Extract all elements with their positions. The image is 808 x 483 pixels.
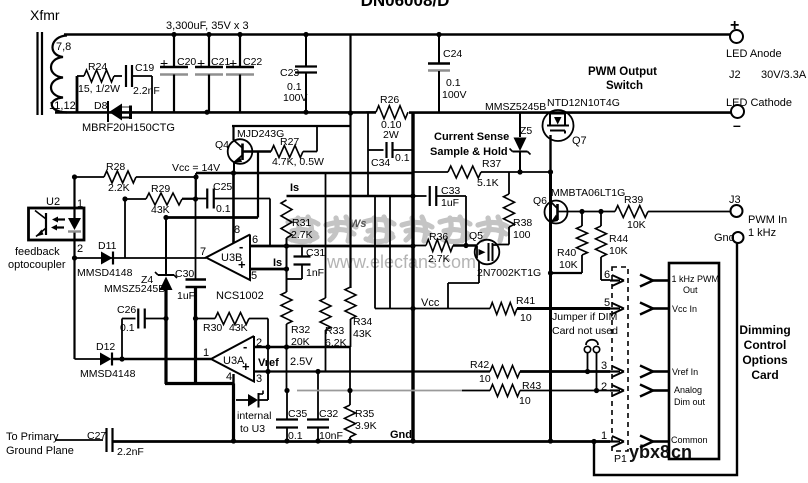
card chevron VrefIn (640, 366, 669, 378)
capacitor C26 (117, 304, 145, 334)
transformer Xfmr label (30, 7, 60, 23)
wire snubber left leg (76, 76, 79, 112)
svg-text:Xfmr: Xfmr (30, 7, 60, 23)
wire R39 to J3 (648, 211, 730, 213)
capacitor C27 (87, 428, 144, 458)
resistor R44 (596, 212, 629, 258)
capacitor C21 (195, 34, 230, 112)
svg-text:Q5: Q5 (469, 230, 483, 242)
svg-text:2: 2 (77, 243, 83, 255)
svg-text:D11: D11 (98, 240, 117, 252)
card chevron Analog (640, 385, 669, 397)
svg-text:feedback: feedback (15, 246, 60, 258)
svg-text:C33: C33 (441, 185, 460, 197)
svg-text:2.7K: 2.7K (428, 253, 450, 265)
transformer core and winding (38, 32, 68, 115)
svg-text:0.1: 0.1 (216, 203, 231, 215)
capacitor C33 (413, 185, 466, 209)
wire Q4 emitter (233, 162, 235, 173)
wire gnd rail (113, 429, 595, 442)
P1 pin 1 (601, 430, 624, 447)
svg-text:Gnd: Gnd (390, 429, 412, 441)
svg-text:1 kHz: 1 kHz (748, 227, 776, 239)
svg-text:3: 3 (601, 360, 607, 372)
transformer pin label 7,8 (56, 41, 71, 53)
resistor R32 (281, 292, 310, 348)
svg-text:R36: R36 (429, 231, 448, 243)
card pin label 1kHz PWM Out (672, 274, 720, 295)
svg-text:PWM In: PWM In (748, 214, 787, 226)
wire U3A pin2 line (254, 346, 350, 348)
svg-text:+: + (238, 257, 246, 272)
svg-text:1nF: 1nF (306, 267, 324, 279)
svg-text:1uF: 1uF (177, 290, 195, 302)
svg-text:+: + (242, 359, 250, 374)
capacitor C30 (175, 177, 206, 302)
dimming card box (669, 263, 719, 459)
wire gnd border (594, 243, 737, 475)
svg-text:Ground Plane: Ground Plane (6, 445, 74, 457)
svg-text:1: 1 (203, 347, 209, 359)
svg-text:Vref In: Vref In (672, 367, 698, 377)
diode D11 (98, 240, 117, 265)
wire R40 bottom (551, 255, 583, 273)
wire y217 thick (166, 216, 258, 219)
svg-text:Q7: Q7 (572, 135, 587, 147)
svg-text:0.1: 0.1 (446, 77, 461, 89)
transistor Q5 (469, 230, 541, 279)
svg-text:Is: Is (290, 182, 299, 194)
wire Vcc rail (196, 172, 413, 175)
svg-text:R33: R33 (325, 325, 344, 337)
wire R38 bottom (497, 227, 509, 245)
svg-text:R34: R34 (353, 316, 372, 328)
capacitor C35 (276, 391, 307, 443)
label Dimming Control Options Card (739, 323, 790, 382)
svg-text:C26: C26 (117, 304, 136, 316)
svg-text:D8: D8 (94, 100, 108, 112)
resistor R27 (271, 136, 324, 168)
svg-text:Common: Common (671, 435, 708, 445)
svg-text:LED Anode: LED Anode (726, 48, 782, 60)
svg-text:C34: C34 (371, 157, 390, 169)
capacitor C32 (307, 372, 343, 443)
svg-text:Control: Control (744, 338, 787, 352)
P1 pin 5 (604, 297, 624, 314)
wire C25 right drop to pin6 (269, 199, 271, 247)
svg-text:MBRF20H150CTG: MBRF20H150CTG (82, 122, 175, 134)
svg-text:R39: R39 (624, 194, 643, 206)
svg-text:10K: 10K (559, 259, 578, 271)
svg-text:R28: R28 (106, 161, 125, 173)
svg-text:To Primary: To Primary (6, 431, 59, 443)
svg-text:2.7K: 2.7K (291, 229, 313, 241)
svg-text:-: - (243, 339, 247, 354)
svg-text:10: 10 (520, 312, 532, 324)
svg-text:Dim out: Dim out (674, 397, 706, 407)
watermark chinese brush characters (288, 217, 508, 242)
svg-text:100: 100 (513, 229, 531, 241)
svg-text:15, 1/2W: 15, 1/2W (78, 83, 120, 95)
wire R28 line (75, 176, 105, 178)
svg-text:MMSZ5245B: MMSZ5245B (485, 101, 546, 113)
card chevron 1kHz (640, 275, 669, 287)
wire U2 pin1 (75, 177, 84, 210)
card chevron VccIn (640, 303, 669, 315)
wire R27 right lead (303, 126, 317, 152)
svg-text:C22: C22 (243, 56, 262, 68)
resistor R37 (448, 158, 501, 189)
svg-text:R35: R35 (355, 408, 374, 420)
svg-text:3,300uF, 35V x 3: 3,300uF, 35V x 3 (166, 20, 249, 32)
svg-text:MJD243G: MJD243G (237, 128, 284, 140)
svg-text:100V: 100V (283, 92, 308, 104)
svg-text:C35: C35 (288, 408, 307, 420)
svg-text:5: 5 (604, 297, 610, 309)
wire rail right of R26 to LED cathode (409, 111, 731, 114)
resistor R38 (504, 172, 533, 241)
wire R30 right drop (249, 319, 268, 401)
wire R28 right (136, 173, 196, 199)
svg-text:to U3: to U3 (240, 423, 265, 435)
card pin label Common (671, 435, 708, 445)
label Ws (350, 218, 367, 230)
svg-text:P1: P1 (614, 453, 627, 465)
svg-text:2N7002KT1G: 2N7002KT1G (477, 267, 541, 279)
wire R29 left drop to D11 line (124, 199, 126, 258)
wire R33 top lead (325, 173, 327, 298)
resistor R35 (345, 391, 377, 442)
svg-text:U2: U2 (46, 196, 60, 208)
svg-text:1 kHz PWM: 1 kHz PWM (672, 274, 720, 284)
wire R34 bottom (350, 319, 352, 347)
svg-text:Vcc: Vcc (421, 297, 440, 309)
svg-text:7: 7 (200, 246, 206, 258)
wire U2 pin2 (75, 240, 84, 258)
P1 pin 2 (601, 381, 624, 396)
resistor R40 (557, 212, 588, 272)
svg-text:optocoupler: optocoupler (8, 259, 66, 271)
svg-text:C24: C24 (443, 48, 462, 60)
svg-text:2.5V: 2.5V (290, 356, 313, 368)
wire Q6 base line (559, 211, 616, 213)
capacitor C23 (280, 34, 317, 112)
svg-text:2.2nF: 2.2nF (133, 85, 160, 97)
label NTD12N10T4G (547, 97, 620, 109)
svg-text:NTD12N10T4G: NTD12N10T4G (547, 97, 620, 109)
wire Vcc to pin8 (232, 173, 235, 243)
label feedback optocoupler (8, 246, 66, 271)
svg-text:ybx8: ybx8 (629, 442, 670, 462)
svg-text:0.1: 0.1 (395, 152, 410, 164)
wire R24 to C19 (114, 75, 122, 77)
resistor R29 (125, 183, 196, 216)
svg-text:www.elecfans.com: www.elecfans.com (326, 252, 476, 272)
svg-text:Card not used: Card not used (552, 325, 618, 337)
label MBRF20H150CTG (82, 122, 175, 134)
resistor R39 (615, 194, 648, 231)
svg-text:2.2K: 2.2K (108, 182, 130, 194)
svg-text:Options: Options (742, 353, 788, 367)
wire Q4 base to R27 (243, 150, 272, 152)
optocoupler U2 (29, 196, 85, 240)
svg-text:30V/3.3A: 30V/3.3A (761, 69, 807, 81)
svg-text:Vref: Vref (258, 357, 279, 369)
svg-text:R44: R44 (609, 233, 628, 245)
capacitor C19 (126, 62, 160, 97)
resistor R26 (366, 94, 408, 141)
wire R26 left drop (367, 112, 369, 196)
svg-text:5: 5 (251, 270, 257, 282)
svg-text:R27: R27 (280, 136, 299, 148)
op-amp U3B (200, 224, 258, 282)
svg-text:PWM Output: PWM Output (588, 66, 657, 78)
svg-text:R37: R37 (482, 158, 501, 170)
resistor R36 (413, 231, 476, 265)
wire x234 to gnd (232, 384, 235, 442)
svg-text:Dimming: Dimming (739, 323, 790, 337)
P1 dashed box (612, 267, 628, 465)
svg-text:Current Sense: Current Sense (434, 131, 509, 143)
P1 pin 6 (604, 269, 624, 286)
svg-text:C25: C25 (213, 181, 232, 193)
label Vcc = 14V (172, 162, 220, 174)
resistor R28 (104, 161, 136, 194)
jumper symbol (584, 340, 599, 391)
terminal J3 (729, 194, 787, 239)
svg-text:10K: 10K (627, 219, 646, 231)
wire C27 left (55, 439, 103, 441)
svg-text:R26: R26 (380, 94, 399, 106)
svg-text:R30: R30 (203, 322, 222, 334)
svg-text:internal: internal (237, 410, 271, 422)
wire C30 bottom thick (194, 287, 197, 384)
label 3300uF (166, 20, 249, 32)
internal transistor (236, 372, 271, 436)
zener Z4 (104, 272, 177, 295)
svg-text:5.1K: 5.1K (477, 177, 499, 189)
wire R33 bottom (325, 330, 327, 372)
P1 pin 3 (601, 360, 624, 377)
label MMBTA06LT1G (551, 187, 625, 199)
capacitor C22 (226, 34, 262, 112)
diode D12 (80, 341, 136, 380)
wire R31 to R32 (286, 238, 288, 292)
svg-text:R41: R41 (516, 295, 535, 307)
svg-text:+: + (229, 55, 237, 71)
svg-text:Out: Out (683, 285, 698, 295)
svg-text:6: 6 (252, 234, 258, 246)
svg-text:R31: R31 (292, 217, 311, 229)
wire pin2 corner down (349, 347, 351, 391)
svg-text:NCS1002: NCS1002 (216, 290, 264, 302)
wire Vref line (254, 356, 413, 372)
svg-text:C32: C32 (319, 408, 338, 420)
wire y126 horizontal (232, 125, 351, 127)
wire R37 line (413, 171, 448, 173)
wire gray analog dim line (297, 390, 462, 392)
svg-text:J2: J2 (729, 69, 741, 81)
svg-text:MMSD4148: MMSD4148 (80, 368, 136, 380)
svg-text:C23: C23 (280, 67, 299, 79)
capacitor C25 (182, 181, 270, 215)
svg-text:4.7K, 0.5W: 4.7K, 0.5W (272, 156, 324, 168)
wire pin1 line (75, 358, 212, 360)
svg-text:+: + (160, 55, 168, 71)
svg-text:–: – (733, 117, 741, 133)
svg-text:R43: R43 (522, 380, 541, 392)
svg-text:3: 3 (256, 373, 262, 385)
svg-text:6: 6 (604, 269, 610, 281)
svg-text:Vcc In: Vcc In (672, 304, 697, 314)
transistor Q6 (533, 195, 568, 224)
svg-text:Analog: Analog (674, 385, 702, 395)
svg-text:2.2nF: 2.2nF (117, 446, 144, 458)
title DN06008/D (clipped) (361, 0, 450, 10)
svg-text:2W: 2W (383, 129, 399, 141)
label NCS1002 (216, 290, 264, 302)
svg-text:8: 8 (234, 224, 240, 236)
svg-text:Q6: Q6 (533, 195, 547, 207)
watermark www.elecfans.com (326, 252, 476, 272)
wire U3B pin6 line (250, 245, 413, 248)
wire main vertical bus x413 (411, 113, 414, 441)
wire Q4 collector (232, 126, 234, 140)
resistor R31 (281, 200, 313, 241)
wire Q4 base bias drop x258 (257, 152, 259, 218)
wire top rail +30V (64, 33, 730, 35)
wire gnd rail to P1 pin1 (594, 440, 610, 443)
wire U3B pin5 line (250, 257, 287, 269)
wire C26 left drop (121, 319, 123, 360)
svg-text:100V: 100V (442, 89, 467, 101)
wire snubber right leg (132, 76, 152, 112)
svg-text:1uF: 1uF (441, 197, 459, 209)
svg-text:3.9K: 3.9K (355, 420, 377, 432)
wire Z4 anode thick (164, 290, 167, 384)
svg-text:R40: R40 (557, 247, 576, 259)
svg-text:R24: R24 (88, 61, 107, 73)
wire Is line y196 (287, 182, 414, 196)
svg-text:Ws: Ws (350, 218, 367, 230)
svg-text:+: + (197, 55, 205, 71)
card pin label Analog Dim out (674, 385, 706, 407)
svg-text:Is: Is (273, 257, 282, 269)
svg-text:R42: R42 (470, 359, 489, 371)
transistor Q7 (543, 110, 587, 147)
svg-text:Q4: Q4 (215, 139, 229, 151)
card pin label Vref In (672, 367, 698, 377)
transformer pin label 11,12 (49, 100, 76, 112)
svg-text:Sample & Hold: Sample & Hold (430, 146, 508, 158)
resistor R41 (413, 295, 610, 324)
resistor R24 (77, 61, 120, 95)
svg-text:C31: C31 (306, 247, 325, 259)
svg-text:R32: R32 (291, 324, 310, 336)
svg-text:C20: C20 (177, 56, 196, 68)
watermark ybx8.cn (629, 442, 692, 462)
wire U2pin2 to D12 (73, 258, 75, 359)
label To Primary Ground Plane (6, 431, 74, 457)
wire C26 right (145, 318, 167, 320)
capacitor C34 (368, 142, 412, 169)
wire Q7 source (549, 135, 551, 172)
wire Q7Q6 vertical (549, 172, 552, 441)
resistor R43 (462, 380, 610, 407)
terminal Gnd (714, 232, 744, 244)
label Current Sense Sample Hold (430, 131, 509, 158)
wire Vcc R41 line (375, 196, 440, 309)
svg-text:R38: R38 (513, 217, 532, 229)
svg-text:Card: Card (751, 368, 778, 382)
zener Z5 (485, 101, 546, 172)
svg-text:Jumper if DIM: Jumper if DIM (552, 311, 617, 323)
svg-text:DN06008/D: DN06008/D (361, 0, 450, 10)
label MMSD4148 (D11) (77, 267, 133, 279)
card pin label Vcc In (672, 304, 697, 314)
svg-text:11,12: 11,12 (49, 100, 76, 112)
svg-text:10: 10 (479, 373, 491, 385)
svg-text:-: - (239, 239, 243, 254)
op-amp U3A (203, 336, 262, 385)
wire R37 to Q7 source (481, 171, 551, 173)
wire R32 bottom (286, 324, 288, 391)
wire U3A pin4 (232, 374, 234, 384)
svg-text:43K: 43K (151, 204, 170, 216)
svg-text:C30: C30 (175, 268, 194, 280)
diode D8 (94, 100, 131, 122)
svg-text:Z5: Z5 (520, 125, 532, 137)
svg-text:J3: J3 (729, 194, 741, 206)
wire y383 thick (165, 382, 235, 385)
svg-text:Switch: Switch (606, 80, 643, 92)
svg-text:10K: 10K (609, 245, 628, 257)
wire R44 bottom (601, 257, 610, 280)
svg-text:MMBTA06LT1G: MMBTA06LT1G (551, 187, 625, 199)
capacitor C31 (287, 246, 325, 279)
svg-text:7,8: 7,8 (56, 41, 71, 53)
wire C33 drop (465, 196, 467, 246)
wire Ws vertical bus (349, 35, 351, 289)
svg-text:43K: 43K (353, 328, 372, 340)
card chevron Common (640, 436, 669, 448)
label jumper (552, 311, 618, 337)
capacitor C24 (428, 34, 467, 112)
resistor R42 (413, 359, 610, 385)
label PWM Output Switch (588, 66, 657, 92)
svg-text:MMSD4148: MMSD4148 (77, 267, 133, 279)
svg-text:C27: C27 (87, 430, 106, 442)
svg-text:2: 2 (601, 381, 607, 393)
wire R30 left (196, 318, 216, 320)
terminal LED anode J2 (726, 17, 807, 81)
svg-text:10: 10 (519, 395, 531, 407)
wire Q5 source (448, 261, 479, 309)
svg-text:43K: 43K (229, 322, 248, 334)
svg-text:LED Cathode: LED Cathode (726, 97, 792, 109)
resistor R34 (345, 287, 372, 340)
terminal LED cathode (726, 97, 792, 133)
svg-text:C19: C19 (135, 62, 154, 74)
svg-text:R29: R29 (151, 183, 170, 195)
svg-text:MMSZ5245B: MMSZ5245B (104, 283, 165, 295)
wire bottom rail from D8 (55, 111, 376, 114)
svg-text:D12: D12 (96, 341, 115, 353)
transistor Q4 (215, 128, 284, 164)
svg-text:4: 4 (226, 371, 232, 383)
resistor R30 (203, 313, 249, 335)
capacitor C20 (160, 34, 196, 112)
